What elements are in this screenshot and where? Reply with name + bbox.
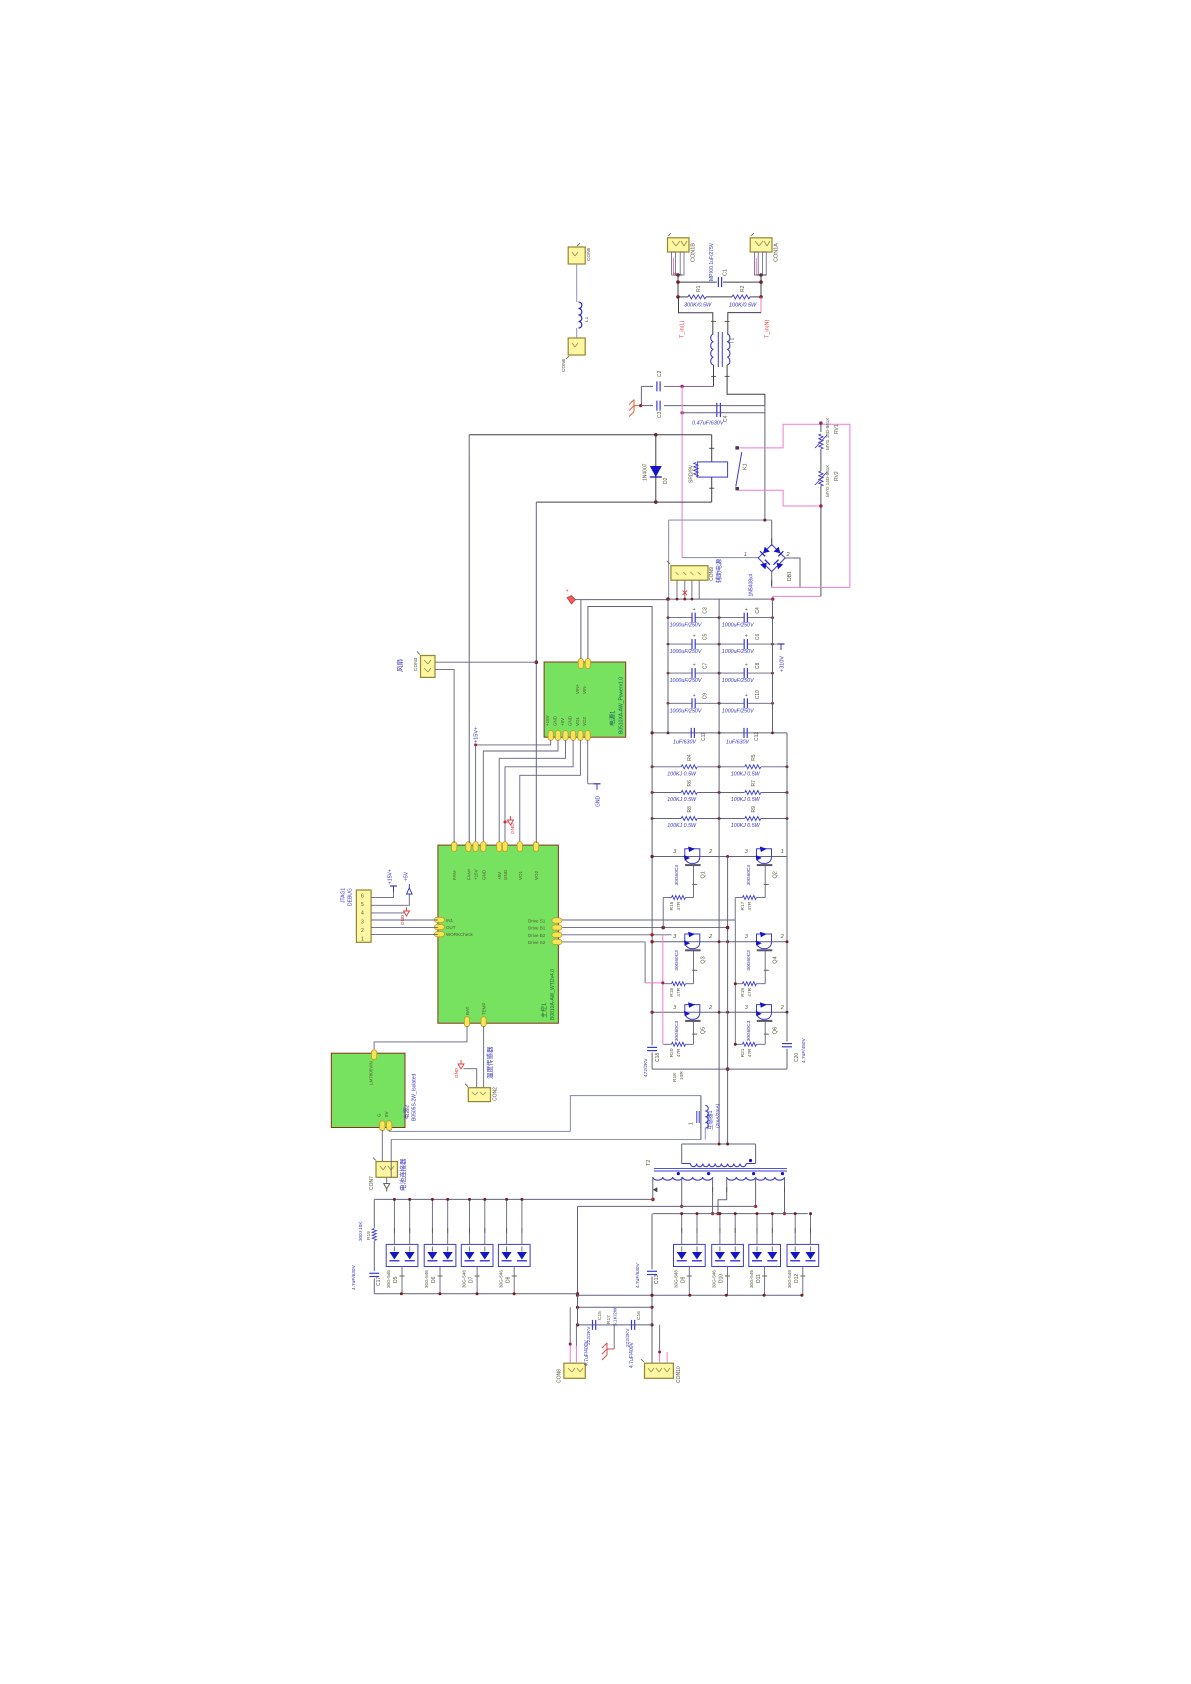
svg-text:5: 5 <box>361 902 364 908</box>
svg-text:1: 1 <box>361 937 364 943</box>
svg-text:100KJ 0.5W: 100KJ 0.5W <box>731 797 761 803</box>
svg-text:+: + <box>693 634 696 640</box>
svg-text:300K/0.5W: 300K/0.5W <box>684 303 712 309</box>
svg-text:C1: C1 <box>723 269 729 276</box>
svg-text:C5: C5 <box>703 633 709 640</box>
svg-text:D9: D9 <box>681 1276 687 1283</box>
wire bridge bottom pin <box>771 572 773 588</box>
capacitor C17 4.7uF/630V <box>373 1241 375 1271</box>
svg-text:1uF/630V: 1uF/630V <box>673 740 696 746</box>
net label GND red mid <box>504 821 507 824</box>
svg-text:R1: R1 <box>696 285 702 292</box>
svg-text:Drive S1: Drive S1 <box>528 919 546 924</box>
svg-text:电源2: 电源2 <box>403 1105 411 1119</box>
svg-text:C20: C20 <box>794 1053 800 1062</box>
svg-text:100KJ 0.5W: 100KJ 0.5W <box>731 823 761 829</box>
U1 left pins <box>434 917 444 922</box>
svg-text:R17: R17 <box>606 1315 612 1324</box>
svg-text:+5V: +5V <box>404 871 410 881</box>
gnd arrow battery <box>386 1177 388 1183</box>
svg-text:Drive B2: Drive B2 <box>528 933 546 938</box>
svg-text:GND: GND <box>454 1067 459 1078</box>
wire center tap rail <box>578 1205 756 1207</box>
transistor Q3 30G60C3 <box>685 934 700 949</box>
gate resistor R21 47R <box>735 1043 742 1045</box>
svg-text:4: 4 <box>361 911 364 917</box>
wire emitter bus column mid <box>718 857 720 1145</box>
svg-text:RV2: RV2 <box>834 471 840 481</box>
svg-text:GND: GND <box>510 823 516 834</box>
svg-text:K1: K1 <box>743 463 749 470</box>
junction legs <box>676 273 680 277</box>
svg-text:1N4007: 1N4007 <box>643 463 649 481</box>
wire cap bank verticals <box>667 599 669 733</box>
svg-text:1: 1 <box>744 552 747 558</box>
svg-text:1: 1 <box>689 1122 695 1125</box>
wire resistor grid top rail <box>652 732 787 734</box>
PS2 top pin <box>372 1050 377 1060</box>
svg-text:C15: C15 <box>597 1311 603 1320</box>
svg-text:RV1: RV1 <box>834 424 840 434</box>
svg-text:4.7uF/450V: 4.7uF/450V <box>801 1037 807 1063</box>
svg-text:47R: 47R <box>747 901 753 910</box>
svg-text:30G60C3: 30G60C3 <box>746 865 752 886</box>
svg-text:C18: C18 <box>655 1053 661 1062</box>
wire U1 TEMP pin to sensor <box>483 1026 485 1088</box>
wire snubber return <box>652 1068 728 1070</box>
wires CON8 legs <box>569 1346 571 1363</box>
wire secondary A right lead <box>712 1177 714 1214</box>
svg-text:GND: GND <box>400 914 405 925</box>
capacitor C13 4.7uF/630V <box>651 1214 653 1270</box>
wire fan feed vertical <box>468 435 470 843</box>
capacitor C1 value 0.1uF/275V <box>717 277 719 287</box>
wire loop top AC-N to bridge <box>669 519 772 521</box>
svg-text:Q2: Q2 <box>772 871 778 878</box>
wire U1 BAT pin to PS2 <box>374 1026 467 1049</box>
wire left vertical to earth <box>640 386 642 405</box>
svg-text:JTAG1: JTAG1 <box>341 888 347 903</box>
capacitor C5 1000uF/250V <box>668 643 692 645</box>
wire T2 primary leads <box>681 1144 683 1164</box>
svg-text:C8: C8 <box>755 662 761 669</box>
svg-text:R18: R18 <box>669 988 675 997</box>
svg-text:2: 2 <box>708 1005 712 1011</box>
svg-text:R17: R17 <box>740 901 746 910</box>
gate resistor R18 47R <box>663 983 671 985</box>
capacitor C2 Y-cap 2.2nF <box>656 381 658 391</box>
wire loop left vertical to DC+ rail <box>668 520 670 599</box>
svg-text:SRD/9V: SRD/9V <box>689 464 695 483</box>
gate resistor R19 47R <box>735 983 742 985</box>
gate resistor R20 47R <box>663 1043 671 1045</box>
svg-text:Q3: Q3 <box>701 956 707 963</box>
svg-text:VO1: VO1 <box>518 870 523 880</box>
wire right rectifier top rail <box>653 1213 808 1215</box>
svg-text:CON1A: CON1A <box>774 243 780 262</box>
svg-text:G: G <box>377 1113 382 1117</box>
gate resistor R16 47R <box>663 897 671 899</box>
capacitor C11 1uF/630V <box>690 728 692 738</box>
svg-text:D8: D8 <box>505 1276 511 1283</box>
IC PS2 B0505S-2W isolated supply <box>331 1053 405 1127</box>
wire collector rail row 1 <box>652 856 787 858</box>
svg-text:R7: R7 <box>751 780 757 787</box>
svg-text:VO1: VO1 <box>575 716 580 726</box>
wire resistor grid verticals <box>651 733 653 1012</box>
resistor R4 100KJ 0.5W <box>681 765 697 769</box>
resistor R7 100KJ 0.5W <box>745 791 761 795</box>
svg-text:R19: R19 <box>740 988 746 997</box>
svg-text:Q6: Q6 <box>772 1027 778 1034</box>
svg-text:+: + <box>693 607 696 613</box>
wire L-line down to T1 <box>679 297 713 334</box>
transistor Q4 30G60C3 <box>757 934 772 949</box>
wire secondary A tap <box>681 1177 683 1206</box>
wire J1 legs <box>672 252 676 275</box>
wire blue sense 2 <box>391 1139 701 1141</box>
resistor R8 100KJ 0.5W <box>681 817 697 821</box>
svg-text:30G60C3: 30G60C3 <box>674 950 680 971</box>
svg-text:1: 1 <box>781 849 784 855</box>
wire pink gate drive <box>645 982 663 984</box>
diode module D11 30G-546 / 30A <box>749 1244 781 1266</box>
svg-text:4.7uF/400V: 4.7uF/400V <box>584 1339 590 1366</box>
capacitor C10 1000uF/250V <box>719 702 744 704</box>
svg-text:100KJ 0.5W: 100KJ 0.5W <box>667 771 697 777</box>
power flag red +310V <box>576 599 581 601</box>
wire secondary B right lead <box>784 1177 786 1214</box>
svg-text:30G-546: 30G-546 <box>461 1270 466 1288</box>
resistor R2 100K/0.5W <box>732 295 750 299</box>
wire right rectifier bottom rail <box>578 1294 802 1296</box>
wire drive B1 from MCU <box>557 927 728 929</box>
svg-text:L1: L1 <box>584 316 590 322</box>
PS1 top pins <box>578 659 583 669</box>
resistor R1 300K/0.5W <box>688 295 706 299</box>
gate resistor R17 47R <box>735 897 742 899</box>
svg-text:R4: R4 <box>687 754 693 761</box>
svg-text:100KJ 0.5W: 100KJ 0.5W <box>667 797 697 803</box>
wire J2 legs <box>754 252 758 275</box>
svg-text:BAT: BAT <box>465 1006 470 1015</box>
svg-text:电池连接器: 电池连接器 <box>398 1158 407 1191</box>
svg-text:1000uF/250V: 1000uF/250V <box>722 678 754 684</box>
wire fan pin2 <box>435 670 454 843</box>
svg-text:VIN-: VIN- <box>582 684 587 694</box>
svg-text:MPX/0.1uF/275V: MPX/0.1uF/275V <box>709 242 715 281</box>
transistor Q2 30G60C3 <box>757 849 772 864</box>
transistor Q5 30G60C3 <box>685 1005 700 1020</box>
svg-text:+15V: +15V <box>474 869 479 880</box>
svg-text:30G-546: 30G-546 <box>712 1270 717 1288</box>
wire secondary B left lead <box>718 1177 727 1214</box>
svg-text:CON1B: CON1B <box>691 243 697 262</box>
wire left rectifier bottom rail <box>374 1293 577 1295</box>
svg-text:(2mA/2mA): (2mA/2mA) <box>715 1103 721 1128</box>
wire drive B2 from MCU <box>557 934 672 936</box>
svg-text:C6: C6 <box>755 633 761 640</box>
bridge rectifier DB1 KBPC2510 <box>758 545 785 572</box>
svg-text:100K/0.5W: 100K/0.5W <box>729 303 757 309</box>
svg-text:TEMP: TEMP <box>482 1002 487 1015</box>
svg-text:1000uF/250V: 1000uF/250V <box>670 623 702 629</box>
capacitor C3 1000uF/250V <box>668 617 692 619</box>
resistor R9 100KJ 0.5W <box>745 817 761 821</box>
PS1 bottom pins <box>548 731 553 741</box>
svg-text:+5V: +5V <box>560 718 565 726</box>
svg-text:电源1: 电源1 <box>609 710 617 726</box>
svg-text:1uF/630V: 1uF/630V <box>726 740 749 746</box>
svg-text:C13: C13 <box>654 1275 660 1284</box>
svg-text:D12: D12 <box>794 1274 800 1283</box>
connector FAN1 <box>421 656 436 678</box>
transformer T2 core <box>654 1167 787 1169</box>
capacitor C9 1000uF/250V <box>668 702 692 704</box>
svg-text:辅助电源: 辅助电源 <box>715 559 723 583</box>
svg-text:30G-546: 30G-546 <box>749 1270 754 1288</box>
svg-text:30G60C3: 30G60C3 <box>674 865 680 886</box>
svg-text:R19: R19 <box>366 1231 372 1240</box>
wire pink bridge minus row <box>772 586 850 588</box>
wire pink AC-L vertical to bridge <box>681 386 683 557</box>
capacitor C8 1000uF/250V <box>719 672 744 674</box>
transistor Q1 30G60C3 <box>685 849 700 864</box>
capacitor C7 1000uF/250V <box>668 672 692 674</box>
svg-text:R8: R8 <box>687 806 693 813</box>
earth ground <box>634 405 640 407</box>
svg-text:风扇: 风扇 <box>395 659 404 672</box>
svg-text:30G60C3: 30G60C3 <box>746 950 752 971</box>
net +15V on JTAG <box>371 892 393 898</box>
svg-text:5.1K/2W: 5.1K/2W <box>613 1307 619 1326</box>
connector CON9 aux supply 4-pin <box>671 566 708 581</box>
svg-text:MYG 14D-561K: MYG 14D-561K <box>825 417 830 450</box>
wire PS1 pin VIN- <box>588 607 652 733</box>
svg-text:D2: D2 <box>663 477 669 484</box>
svg-text:C16: C16 <box>636 1311 642 1320</box>
wire left rectifier top rail <box>374 1198 653 1200</box>
current transformer CT1 core <box>696 1111 698 1123</box>
svg-text:2: 2 <box>708 849 712 855</box>
svg-text:C7: C7 <box>703 662 709 669</box>
connector CON8 output minus <box>564 1363 585 1378</box>
svg-text:C9: C9 <box>703 693 709 700</box>
svg-text:C10: C10 <box>755 690 761 699</box>
svg-text:C17: C17 <box>376 1277 382 1286</box>
wire PS1 pin6 GND flag <box>587 740 589 784</box>
wires CON9 legs to DC rail <box>676 580 678 599</box>
varistor RV1 MYG14D-561K <box>819 421 822 424</box>
svg-text:D7: D7 <box>468 1276 474 1283</box>
net label +15V <box>474 743 477 746</box>
svg-text:30G-546: 30G-546 <box>386 1270 391 1288</box>
svg-text:LM7805VIN: LM7805VIN <box>369 1061 374 1085</box>
wire collector rail row 2 <box>652 941 787 943</box>
svg-text:1000uF/250V: 1000uF/250V <box>670 649 702 655</box>
svg-text:+: + <box>745 634 748 640</box>
wire relay bottom rail <box>536 501 711 503</box>
svg-text:+: + <box>745 607 748 613</box>
capacitor C20 472/2KV right <box>786 1012 788 1041</box>
svg-text:主控1: 主控1 <box>540 1002 548 1018</box>
svg-text:R6: R6 <box>687 780 693 787</box>
svg-text:T1: T1 <box>730 338 736 344</box>
svg-text:Q4: Q4 <box>772 956 778 963</box>
connector FAN3 standalone bottom <box>568 338 585 355</box>
marker red cross on leg <box>683 591 688 596</box>
wires CON10 legs <box>659 1352 661 1363</box>
svg-text:T2: T2 <box>646 1160 652 1166</box>
svg-text:GND: GND <box>503 869 508 880</box>
svg-text:2: 2 <box>361 928 364 934</box>
svg-text:C12: C12 <box>754 732 760 741</box>
wire relay top rail <box>469 434 712 436</box>
wire right rail down <box>786 857 788 1013</box>
wire AC bus upper <box>677 275 679 297</box>
svg-text:30G-546: 30G-546 <box>498 1270 503 1288</box>
U1 bottom pins <box>464 1017 469 1027</box>
connector CON7 battery <box>376 1162 397 1178</box>
svg-text:3: 3 <box>361 919 364 925</box>
wire PS1 pin VIN+ to DC rail <box>580 600 582 659</box>
svg-text:R21: R21 <box>740 1048 746 1057</box>
net label +310V <box>773 643 779 645</box>
svg-text:+15V+: +15V+ <box>388 869 394 884</box>
wire emitter bus second <box>727 857 729 1145</box>
svg-text:OUT: OUT <box>446 925 456 930</box>
diode module D5 30G-546 / 30A <box>386 1244 418 1266</box>
net +5V on JTAG <box>371 894 409 905</box>
svg-text:30G-546: 30G-546 <box>787 1270 792 1288</box>
svg-text:1N5408x4: 1N5408x4 <box>749 573 755 596</box>
svg-text:CON7: CON7 <box>369 1176 375 1190</box>
svg-text:C11: C11 <box>701 732 707 741</box>
wire pink relay top contact to varistors <box>739 424 850 448</box>
wire pink relay bottom contact to varistors <box>739 490 821 506</box>
svg-text:D11: D11 <box>756 1274 762 1283</box>
U1 right pins <box>552 918 562 923</box>
wire bridge top pin <box>771 520 773 546</box>
svg-text:B0505S-2W_Isolated: B0505S-2W_Isolated <box>412 1074 418 1121</box>
svg-text:FAN+: FAN+ <box>466 868 471 880</box>
svg-text:互感器1: 互感器1 <box>706 1110 714 1130</box>
inductor L1 <box>579 302 582 328</box>
resistor R6 100KJ 0.5W <box>681 791 697 795</box>
diode module D12 30G-546 / 30A <box>787 1244 819 1266</box>
wire relay feed vertical <box>535 502 537 843</box>
capacitor C6 1000uF/250V <box>719 643 744 645</box>
svg-text:4.7uF/630V: 4.7uF/630V <box>635 1262 641 1288</box>
staircase wires PS1 to MCU <box>476 740 551 845</box>
wire T1 left bottom lead <box>713 365 715 386</box>
wire drive S1 from MCU <box>557 919 735 921</box>
svg-text:30G60C3: 30G60C3 <box>746 1020 752 1041</box>
connector CON10 output plus <box>645 1363 674 1378</box>
wire secondary B tap <box>755 1177 757 1206</box>
resistor R19 300J <box>373 1199 375 1228</box>
IC U1 B0810A-AW main controller <box>438 845 559 1023</box>
svg-text:R5: R5 <box>751 754 757 761</box>
connector J1 (AC live input) <box>668 238 690 252</box>
net GND red temp <box>458 1064 464 1069</box>
relay K1 switch <box>735 446 739 449</box>
svg-text:C2: C2 <box>657 370 663 377</box>
wire Y-cap top <box>641 385 653 387</box>
wire bridge AC1 row <box>682 557 758 559</box>
PS2 bottom pins <box>380 1121 385 1131</box>
resistor R5 100KJ 0.5W <box>745 765 761 769</box>
diode module D9 30G-546 / 30A <box>674 1244 706 1266</box>
svg-text:1000uF/250V: 1000uF/250V <box>722 623 754 629</box>
svg-text:D10: D10 <box>719 1274 725 1283</box>
svg-text:100KJ 0.5W: 100KJ 0.5W <box>731 771 761 777</box>
svg-text:T_in(N): T_in(N) <box>765 319 771 338</box>
svg-text:1000uF/250V: 1000uF/250V <box>722 708 754 714</box>
wires JTAG to U1 <box>371 919 438 921</box>
capacitor C3 Y-cap 2.2nF <box>656 401 658 411</box>
svg-text:47R: 47R <box>747 1048 753 1057</box>
svg-text:6: 6 <box>361 894 364 900</box>
wire fan inductor bottom <box>576 328 578 338</box>
svg-text:IN1: IN1 <box>446 918 454 923</box>
wire collector rail row 3 <box>652 1011 787 1013</box>
svg-text:D5: D5 <box>393 1276 399 1283</box>
transformer T2 primary <box>682 1163 691 1165</box>
svg-text:47R: 47R <box>747 987 753 996</box>
current transformer CT1 secondary coil <box>705 1105 708 1128</box>
svg-text:4.7uF/400V: 4.7uF/400V <box>629 1341 635 1368</box>
svg-text:VO2: VO2 <box>534 870 539 880</box>
svg-text:R16: R16 <box>669 901 675 910</box>
svg-text:C3: C3 <box>657 411 663 418</box>
U1 top pins <box>452 842 457 852</box>
wire AC pair to bridge upper <box>641 405 653 407</box>
svg-text:CON5: CON5 <box>586 247 592 261</box>
svg-text:C3: C3 <box>703 607 709 614</box>
svg-text:B0810A-AW_WTDv4.0: B0810A-AW_WTDv4.0 <box>550 969 556 1020</box>
svg-text:+15V+: +15V+ <box>474 727 480 743</box>
svg-text:GND: GND <box>596 796 602 808</box>
wire PS2 to battery connector <box>381 1130 383 1162</box>
wire varistor bottom to bridge minus <box>820 506 822 596</box>
svg-text:VIN+: VIN+ <box>575 683 580 694</box>
wire AC bus lower with R1 R2 <box>678 296 688 298</box>
wire bridge right pin <box>785 558 800 587</box>
connector J2 (AC neutral input) <box>750 238 772 252</box>
wire output row 2 <box>578 1324 653 1326</box>
svg-text:5V: 5V <box>384 1111 389 1117</box>
wire drive S2 from MCU <box>557 942 645 983</box>
svg-text:4.7uF/630V: 4.7uF/630V <box>351 1264 357 1290</box>
svg-text:GND: GND <box>568 715 573 726</box>
wire N-line down to T1 <box>760 297 762 313</box>
svg-text:MYG 14D-561K: MYG 14D-561K <box>825 464 830 497</box>
wire battery pin2 blue <box>390 1140 392 1178</box>
svg-text:CON8: CON8 <box>557 1369 563 1383</box>
svg-text:1000uF/250V: 1000uF/250V <box>670 678 702 684</box>
svg-text:VO2: VO2 <box>582 716 587 726</box>
svg-text:0.47uF/630V: 0.47uF/630V <box>692 421 725 427</box>
wire DC+ top rail <box>581 599 668 601</box>
diode module D8 30G-546 / 30A <box>498 1244 530 1266</box>
svg-text:GND: GND <box>553 715 558 726</box>
svg-text:2: 2 <box>780 934 784 940</box>
wire secondary A left lead <box>652 1177 654 1199</box>
svg-text:10R: 10R <box>679 1071 685 1080</box>
svg-text:472/2KV: 472/2KV <box>643 1058 649 1077</box>
svg-text:CON6: CON6 <box>561 358 567 372</box>
